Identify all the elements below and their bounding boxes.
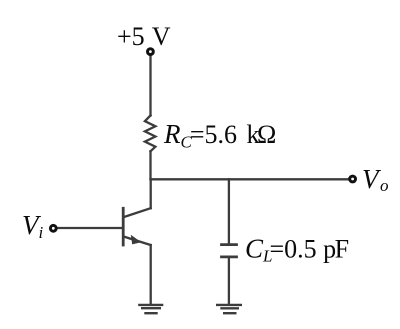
transistor Q1 emitter arrow (131, 235, 141, 245)
wire: +5V supply to resistor top (149, 56, 151, 116)
ground (emitter) (138, 305, 163, 313)
terminal node: Vi input (50, 225, 56, 231)
capacitor CL bottom plate (222, 255, 237, 258)
svg-text:CL=0.5 pF: CL=0.5 pF (245, 234, 349, 266)
wire: Vi terminal to base (58, 227, 123, 229)
wire: emitter diagonal (124, 237, 151, 246)
svg-text:RC=5.6 kΩ: RC=5.6 kΩ (163, 119, 276, 152)
wire: collector node horizontal to Vo terminal (151, 178, 349, 180)
terminal node: Vo output (350, 176, 356, 182)
terminal node: +5V (148, 49, 154, 55)
wire: resistor bottom to collector node (149, 151, 151, 179)
wire: output node down to capacitor top plate (228, 179, 230, 243)
svg-text:+5 V: +5 V (117, 22, 171, 51)
ground (capacitor) (216, 305, 242, 313)
wire: capacitor bottom plate to ground (228, 258, 230, 304)
wire: emitter down to ground (150, 245, 152, 304)
wire: collector diagonal into base bar (124, 208, 151, 217)
svg-text:Vo: Vo (362, 164, 389, 195)
wire: collector node down to transistor collector (150, 179, 152, 208)
capacitor CL top plate (222, 243, 237, 246)
resistor RC zigzag (145, 115, 156, 151)
transistor Q1 base bar (122, 208, 125, 245)
svg-text:Vi: Vi (22, 210, 44, 242)
